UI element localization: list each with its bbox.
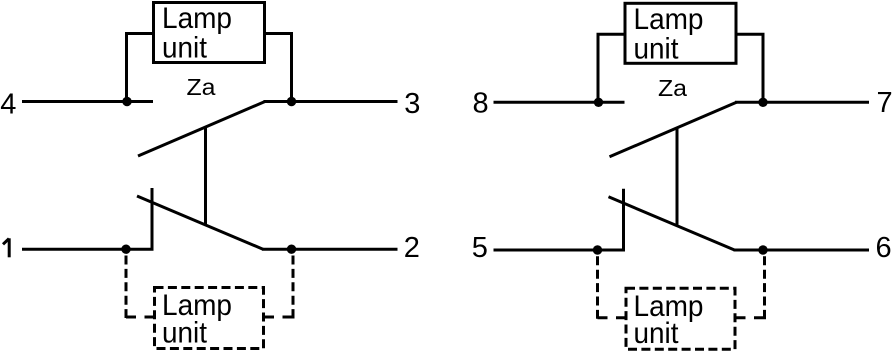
svg-text:5: 5 [472,232,488,264]
svg-text:6: 6 [876,232,892,264]
svg-text:7: 7 [877,87,892,119]
svg-text:2: 2 [404,232,420,264]
svg-text:4: 4 [0,88,16,120]
svg-text:8: 8 [473,88,489,120]
svg-text:3: 3 [404,88,420,120]
